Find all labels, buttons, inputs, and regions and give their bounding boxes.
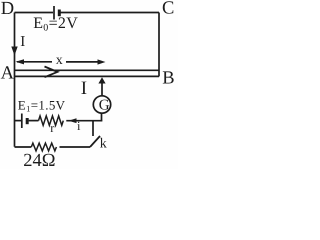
svg-text:x: x [56, 53, 63, 68]
svg-text:E1=1.5V: E1=1.5V [18, 97, 66, 113]
svg-text:k: k [100, 136, 107, 151]
svg-text:C: C [162, 0, 174, 19]
svg-text:B: B [162, 68, 174, 88]
svg-text:E0=2V: E0=2V [33, 15, 78, 34]
svg-text:A: A [1, 63, 15, 83]
svg-text:i: i [77, 119, 81, 133]
svg-text:D: D [1, 0, 14, 19]
svg-text:G: G [99, 98, 110, 114]
svg-text:24Ω: 24Ω [23, 151, 55, 169]
svg-text:I: I [20, 34, 25, 50]
svg-text:I: I [81, 78, 87, 99]
